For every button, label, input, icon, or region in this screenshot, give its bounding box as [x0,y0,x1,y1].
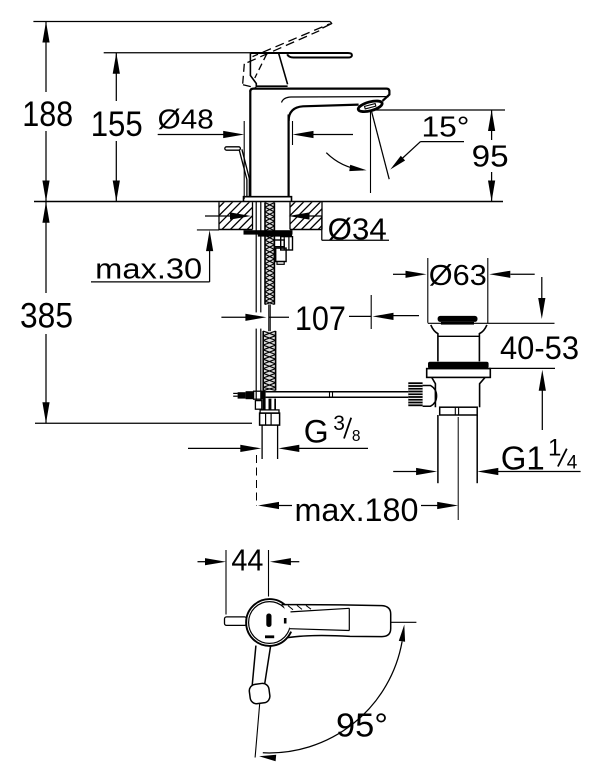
wire top reference line (handle raised height) [33,21,330,23]
dimension 40-53 (flange height range) [489,277,579,430]
drain body [432,377,485,407]
svg-text:Ø48: Ø48 [158,103,214,134]
wire deck top reference line [34,201,503,203]
svg-text:max.180: max.180 [295,492,419,528]
threaded mounting shank (cross-hatched) [265,203,274,305]
dimension max.180 [258,492,458,528]
svg-text:40-53: 40-53 [500,329,579,366]
svg-text:Ø34: Ø34 [328,212,387,247]
mounting washer and nut under deck [244,230,293,264]
svg-text:4: 4 [567,453,578,474]
wire drain centerline [457,417,459,520]
svg-text:max.30: max.30 [95,254,202,286]
handle centre markings (top view) [265,614,287,639]
faucet spout body outline [250,89,389,197]
pop-up vertical rod [269,305,270,332]
svg-text:1: 1 [548,435,561,462]
svg-text:Ø63: Ø63 [429,260,487,292]
lever pointing right (top view) [282,605,391,638]
dimension 385 (height below deck) [20,202,73,423]
flexible supply hose [255,202,261,409]
pop-up drain pull rod knob [225,147,250,197]
dimension 95 (spout outlet height) [376,110,509,202]
svg-text:385: 385 [20,296,73,336]
dimension 155 (spout height) [91,53,143,202]
dimension 44 (top view) [198,543,300,615]
svg-text:G: G [304,414,329,450]
wire 385 bottom reference line [35,422,252,424]
dimension &#216;48 (base diameter) [158,103,353,199]
dimension 188 (total height) [22,22,73,202]
svg-text:155: 155 [91,104,143,144]
dimension 95&#176; swivel angle (top view) [255,622,416,761]
drain upper cone body [431,325,487,362]
threaded pop-up rod adjuster (cross-hatched) [263,331,275,391]
pop-up rod (top view) [225,617,247,626]
svg-text:15°: 15° [422,111,470,143]
handle raised position (dashed outline) [243,22,332,88]
svg-text:107: 107 [295,300,346,338]
dimension 107 (drain offset) [221,295,419,338]
horizontal pop-up linkage rod [266,392,409,397]
dimension &#216;34 (hole diameter) [205,212,389,247]
svg-text:95°: 95° [336,708,388,745]
svg-text:8: 8 [352,428,361,445]
svg-text:188: 188 [22,94,73,134]
svg-text:44: 44 [231,543,263,578]
drain tailpipe G1 1/4 [438,415,477,483]
pop-up rod clamp screw [233,391,265,400]
handle body circle (top view) [246,599,293,646]
single-lever handle (rest position) [250,53,352,86]
svg-text:95: 95 [472,139,509,174]
wire deck bottom extension line [197,229,219,231]
drain rubber seal and flange [427,362,491,378]
svg-text:3: 3 [333,412,345,435]
label G1 1/4 (drain thread) [393,435,580,478]
knurled adjusting knob on drain [408,382,436,406]
node 155 reference line (lever top level) [104,52,251,54]
label G 3/8 (supply thread) [188,412,368,452]
lever rotated 95&#176; (top view) [249,646,271,705]
deck / countertop cross-section with hatching [178,201,455,231]
dimension max.30 (deck thickness) [91,230,213,286]
base plate / escutcheon [244,197,292,202]
wire drain flange top line [428,322,555,324]
G 3/8 supply connection nut and pipe [260,399,280,459]
dimension &#216;63 (drain flange diameter) [393,258,535,323]
drain plug lift cap [438,316,478,325]
aerator / mousseur at spout tip [357,99,383,114]
svg-text:G1: G1 [501,439,545,477]
drain tailpipe coupling [440,407,478,415]
dimension 15&#176; (spray angle) [326,110,469,194]
wire hose centerline (dashed) [256,455,258,506]
